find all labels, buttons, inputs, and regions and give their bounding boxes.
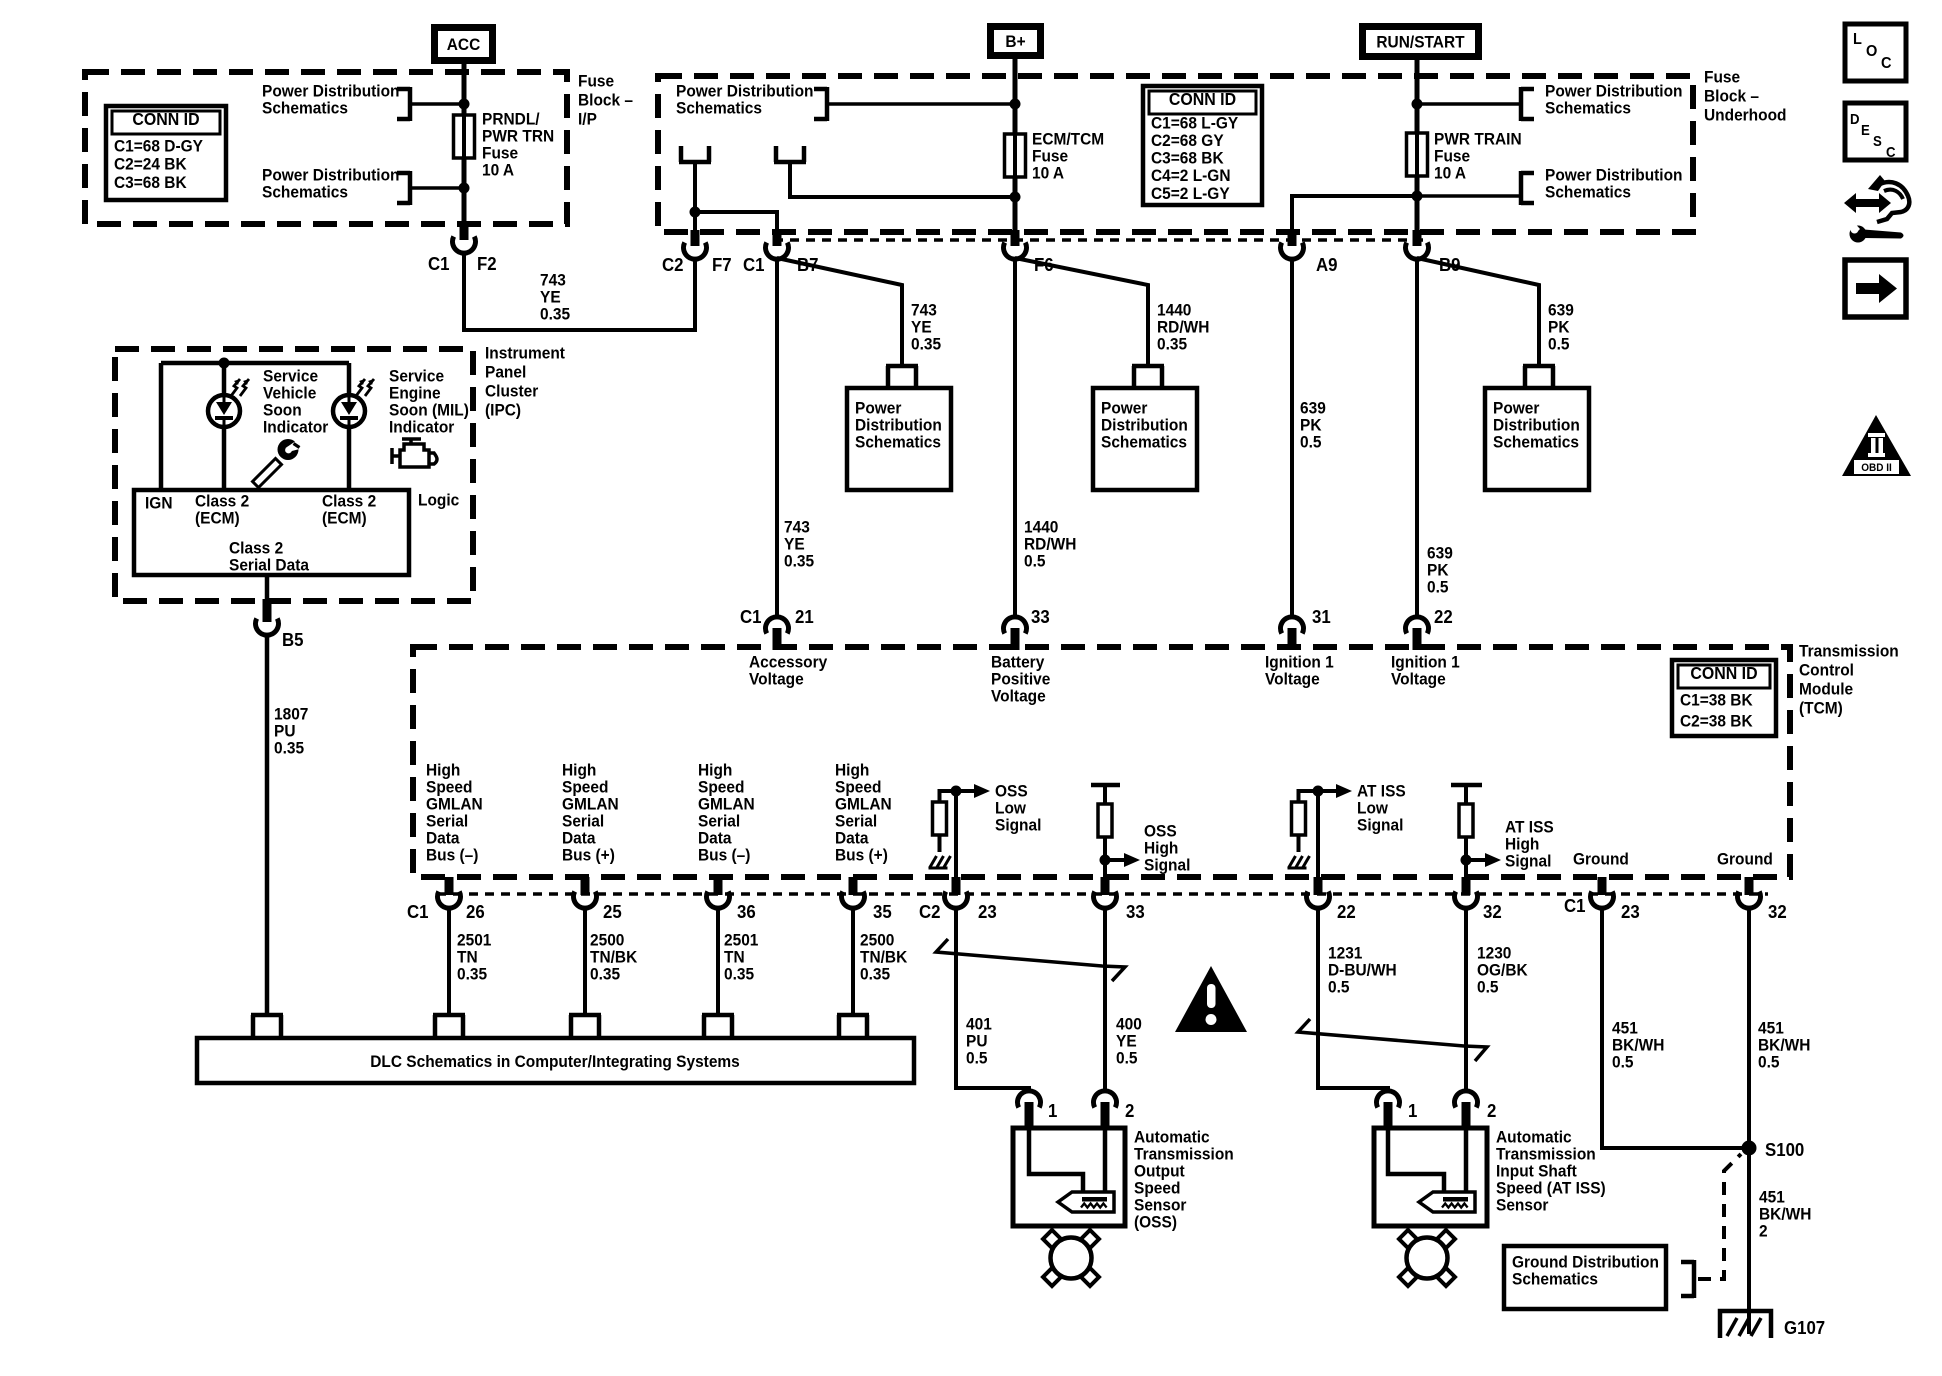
svg-text:C2=68 GY: C2=68 GY xyxy=(1151,131,1224,150)
wire Class 2 serial data xyxy=(265,575,270,601)
resistor (OSS high) xyxy=(1091,783,1120,788)
svg-text:(IPC): (IPC) xyxy=(485,401,521,420)
connector A9 xyxy=(1288,230,1297,246)
svg-text:0.5: 0.5 xyxy=(1477,978,1499,997)
indicator lamp Service Engine Soon xyxy=(333,395,365,427)
label 1440 RD/WH 0.5 (to TCM) xyxy=(1024,518,1058,537)
page link stub (DLC, 1807 PU) xyxy=(251,1013,283,1018)
svg-text:C: C xyxy=(1881,54,1892,72)
svg-text:Indicator: Indicator xyxy=(263,418,329,437)
wire to A9 xyxy=(1292,196,1417,232)
Instrument Panel Cluster dashed box xyxy=(115,349,473,601)
svg-text:C2=38 BK: C2=38 BK xyxy=(1680,712,1753,731)
wire ACC feed xyxy=(462,64,467,224)
signal arrow OSS Low xyxy=(956,789,974,793)
wire 401 PU xyxy=(956,907,1029,1092)
label 401 PU 0.5 xyxy=(966,1015,992,1034)
wire RUN/START feed xyxy=(1415,60,1420,232)
svg-text:Schematics: Schematics xyxy=(262,99,348,118)
svg-text:Signal: Signal xyxy=(1357,816,1403,835)
chassis ground (AT ISS low) xyxy=(1297,835,1301,852)
lamp rays xyxy=(231,379,240,396)
Power Distribution Schematics reference (RUN/START lower) xyxy=(1545,166,1682,185)
svg-text:Instrument: Instrument xyxy=(485,344,565,363)
connector pin 33 (TCM bottom) xyxy=(1101,877,1110,895)
wire label xyxy=(457,931,491,950)
wire to ECM/TCM fuse top xyxy=(827,102,1015,106)
harness dotted line (TCM bottom connectors) xyxy=(437,892,1768,896)
svg-text:0.35: 0.35 xyxy=(1157,335,1187,354)
svg-text:Signal: Signal xyxy=(1144,856,1190,875)
connector C1 B7 xyxy=(773,230,782,246)
junction xyxy=(459,183,470,194)
page link bracket (ground distribution) xyxy=(1692,1260,1697,1298)
page link stub (DLC) xyxy=(837,1013,869,1018)
CONN ID table (TCM) xyxy=(1672,660,1776,736)
label 451 BK/WH 0.5 (left) xyxy=(1612,1019,1638,1038)
svg-text:0.35: 0.35 xyxy=(540,305,570,324)
svg-text:0.35: 0.35 xyxy=(274,739,304,758)
label C1 (TCM top row) xyxy=(740,606,762,627)
label High Speed GMLAN Serial Data Bus xyxy=(426,761,460,780)
svg-text:10 A: 10 A xyxy=(482,161,514,180)
wire to PRNDL fuse lower xyxy=(410,186,464,190)
svg-text:1: 1 xyxy=(1048,1100,1058,1121)
label 639 PK 0.5 (B9 branch) xyxy=(1548,301,1574,320)
svg-text:23: 23 xyxy=(1621,901,1640,922)
label High Speed GMLAN Serial Data Bus xyxy=(698,761,732,780)
svg-text:32: 32 xyxy=(1768,901,1787,922)
svg-text:RUN/START: RUN/START xyxy=(1376,33,1464,52)
svg-text:C2: C2 xyxy=(919,901,941,922)
page link stub ECM branch xyxy=(774,160,806,165)
svg-text:G107: G107 xyxy=(1784,1317,1825,1338)
svg-text:Logic: Logic xyxy=(418,491,459,510)
svg-text:0.5: 0.5 xyxy=(1427,578,1449,597)
Power Distribution Schematics box xyxy=(847,388,951,490)
wire to C1/B7 xyxy=(695,212,777,232)
wire 639 PK (B9) down xyxy=(1415,258,1419,617)
svg-text:C3=68 BK: C3=68 BK xyxy=(114,173,187,192)
svg-text:C4=2 L-GN: C4=2 L-GN xyxy=(1151,167,1231,186)
svg-text:32: 32 xyxy=(1483,901,1502,922)
svg-text:F2: F2 xyxy=(477,253,497,274)
wire B+ feed xyxy=(1013,59,1018,232)
connector F6 xyxy=(1011,230,1020,246)
svg-text:0.5: 0.5 xyxy=(966,1049,988,1068)
label Logic xyxy=(418,491,459,510)
label Ground (C1-23) xyxy=(1573,850,1629,869)
wire GMLAN serial data xyxy=(851,907,855,1015)
power feed RUN/START box xyxy=(1359,23,1482,60)
svg-text:Block –: Block – xyxy=(578,91,633,110)
Fuse Block - I/P dashed box xyxy=(85,72,567,224)
svg-text:C1: C1 xyxy=(428,253,450,274)
CONN ID table (Fuse Block I/P) xyxy=(106,106,226,200)
Power Distribution Schematics box xyxy=(1485,388,1589,490)
AT ISS internal wiring xyxy=(1388,1130,1444,1193)
connector pin 22 (TCM bottom) xyxy=(1314,877,1323,895)
svg-text:Fuse: Fuse xyxy=(1704,68,1740,87)
Fuse Block - I/P label xyxy=(578,72,614,91)
svg-text:S100: S100 xyxy=(1765,1139,1804,1160)
bidirectional message / wrench icon xyxy=(1844,175,1909,243)
svg-text:0.35: 0.35 xyxy=(724,965,754,984)
PWR TRAIN fuse label xyxy=(1434,130,1522,149)
svg-text:D: D xyxy=(1850,110,1860,127)
svg-text:0.5: 0.5 xyxy=(1328,978,1350,997)
svg-text:C1: C1 xyxy=(1564,895,1586,916)
dashed link wire to S100 xyxy=(1698,1154,1741,1279)
wire 1807 PU xyxy=(265,634,270,1015)
connector pin 31 (TCM top) xyxy=(1281,617,1304,634)
svg-text:23: 23 xyxy=(978,901,997,922)
svg-text:2: 2 xyxy=(1759,1222,1768,1241)
svg-text:OBD II: OBD II xyxy=(1861,462,1892,475)
Power Distribution Schematics box xyxy=(1093,388,1197,490)
label High Speed GMLAN Serial Data Bus xyxy=(562,761,596,780)
label C2 (TCM bottom) xyxy=(919,901,941,922)
svg-text:(ECM): (ECM) xyxy=(322,509,367,528)
wire GMLAN serial data xyxy=(583,907,587,1015)
speed sensor pickup symbol (OSS) xyxy=(1058,1192,1114,1212)
forward arrow icon box xyxy=(1845,260,1906,317)
label High Speed GMLAN Serial Data Bus xyxy=(835,761,869,780)
svg-text:0.5: 0.5 xyxy=(1300,433,1322,452)
label OSS High Signal xyxy=(1144,822,1177,841)
connector pin 2 (AT ISS) xyxy=(1455,1091,1478,1108)
label C1 (TCM bottom right) xyxy=(1564,895,1586,916)
svg-text:0.35: 0.35 xyxy=(590,965,620,984)
wire 1440 branch to Power Distribution xyxy=(1015,258,1148,364)
Instrument Panel Cluster label xyxy=(485,344,565,363)
page link stub C2 branch xyxy=(679,160,711,165)
svg-text:(ECM): (ECM) xyxy=(195,509,240,528)
svg-text:22: 22 xyxy=(1337,901,1356,922)
label 1231 D-BU/WH 0.5 xyxy=(1328,944,1362,963)
svg-text:0.5: 0.5 xyxy=(1548,335,1570,354)
chassis ground (OSS low) xyxy=(938,835,942,852)
wire 400 YE xyxy=(1103,907,1107,1092)
svg-text:26: 26 xyxy=(466,901,485,922)
transmission rotor symbol (AT ISS) xyxy=(1399,1230,1417,1248)
wire 639 PK (A9) down xyxy=(1290,258,1294,617)
svg-text:Serial Data: Serial Data xyxy=(229,556,310,575)
svg-text:33: 33 xyxy=(1126,901,1145,922)
wire AT ISS low to pin 22 xyxy=(1316,791,1320,877)
Power Distribution Schematics reference (lower left) xyxy=(262,166,399,185)
page link stub (Power Distribution Schematics box) xyxy=(886,364,918,369)
wire OSS low to pin 23 xyxy=(954,791,958,877)
svg-text:E: E xyxy=(1861,121,1870,138)
svg-text:C1=68 L-GY: C1=68 L-GY xyxy=(1151,114,1238,133)
label 743 YE 0.35 (to TCM) xyxy=(784,518,810,537)
connector pin 1 (OSS) xyxy=(1018,1091,1041,1108)
svg-text:B+: B+ xyxy=(1005,32,1025,51)
svg-text:ACC: ACC xyxy=(447,35,481,54)
label 1807 PU 0.35 xyxy=(274,705,308,724)
svg-text:33: 33 xyxy=(1031,606,1050,627)
AT ISS sensor box xyxy=(1374,1128,1487,1226)
junction xyxy=(459,99,470,110)
wire 451 BK/WH (32) xyxy=(1747,907,1751,1334)
wire 743 YE (to C2) xyxy=(464,252,695,330)
svg-text:C1: C1 xyxy=(740,606,762,627)
signal arrow AT ISS Low xyxy=(1318,789,1336,793)
svg-text:Bus (+): Bus (+) xyxy=(562,846,615,865)
power feed ACC box xyxy=(431,24,496,64)
svg-text:Ground: Ground xyxy=(1717,850,1773,869)
label Ignition 1 Voltage (31) xyxy=(1265,653,1334,672)
ECM/TCM fuse label xyxy=(1032,130,1104,149)
connector pin 26 (TCM bottom) xyxy=(445,877,454,895)
wire GMLAN serial data xyxy=(716,907,720,1015)
resistor (OSS low pull-down) xyxy=(933,802,947,835)
label 639 PK 0.5 (A9) xyxy=(1300,399,1326,418)
svg-text:Voltage: Voltage xyxy=(1265,670,1320,689)
svg-text:C2: C2 xyxy=(662,254,684,275)
resistor (AT ISS low pull-down) xyxy=(1292,802,1306,835)
connector pin 2 (OSS) xyxy=(1094,1091,1117,1108)
svg-text:36: 36 xyxy=(737,901,756,922)
transmission rotor symbol (OSS) xyxy=(1043,1230,1061,1248)
svg-text:Fuse: Fuse xyxy=(578,72,614,91)
OSS internal wiring xyxy=(1029,1130,1083,1193)
svg-text:Panel: Panel xyxy=(485,363,526,382)
wire 743 YE branch to Power Distribution xyxy=(777,258,902,364)
svg-text:Schematics: Schematics xyxy=(1512,1270,1598,1289)
svg-text:0.35: 0.35 xyxy=(457,965,487,984)
label Automatic Transmission Input Shaft Speed Sensor xyxy=(1496,1128,1572,1147)
svg-text:C1=38 BK: C1=38 BK xyxy=(1680,691,1753,710)
wire label xyxy=(724,931,758,950)
wire 1231 D-BU/WH xyxy=(1318,907,1388,1092)
wire 1230 OG/BK xyxy=(1464,907,1468,1092)
CONN ID table (Fuse Block Underhood) xyxy=(1143,86,1262,205)
connector pin 35 (TCM bottom) xyxy=(849,877,858,895)
IPC logic box xyxy=(134,490,409,575)
label Accessory Voltage xyxy=(749,653,827,672)
svg-text:Schematics: Schematics xyxy=(262,183,348,202)
connector pin 1 (AT ISS) xyxy=(1376,1091,1399,1108)
svg-text:0.5: 0.5 xyxy=(1116,1049,1138,1068)
wire GMLAN serial data xyxy=(447,907,451,1015)
svg-text:22: 22 xyxy=(1434,606,1453,627)
svg-text:25: 25 xyxy=(603,901,622,922)
connector pin 33 (TCM top) xyxy=(1004,617,1027,634)
Power Distribution Schematics reference (B+ branch) xyxy=(676,82,813,101)
label Automatic Transmission Output Speed Sensor xyxy=(1134,1128,1210,1147)
svg-text:31: 31 xyxy=(1312,606,1331,627)
label 743 YE 0.35 (branch) xyxy=(911,301,937,320)
svg-text:Indicator: Indicator xyxy=(389,418,455,437)
svg-text:2: 2 xyxy=(1487,1100,1497,1121)
svg-text:CONN ID: CONN ID xyxy=(1169,89,1236,109)
indicator lamp Service Vehicle Soon xyxy=(208,395,240,427)
speed sensor pickup symbol (AT ISS) xyxy=(1419,1192,1475,1212)
svg-text:(OSS): (OSS) xyxy=(1134,1213,1177,1232)
twisted pair marker (AT ISS) xyxy=(1298,1019,1487,1061)
lamp rays xyxy=(356,379,365,396)
svg-text:0.35: 0.35 xyxy=(911,335,941,354)
svg-text:DLC Schematics in Computer/Int: DLC Schematics in Computer/Integrating S… xyxy=(370,1052,740,1071)
connector B5 xyxy=(263,599,272,622)
signal arrow AT ISS High xyxy=(1466,858,1485,862)
svg-text:Voltage: Voltage xyxy=(1391,670,1446,689)
connector pin 23 (TCM bottom) xyxy=(952,877,961,895)
svg-text:Bus (–): Bus (–) xyxy=(426,846,478,865)
svg-text:CONN ID: CONN ID xyxy=(132,109,199,129)
DESC icon box xyxy=(1845,103,1906,160)
svg-text:C5=2 L-GY: C5=2 L-GY xyxy=(1151,184,1230,203)
svg-text:B5: B5 xyxy=(282,629,304,650)
svg-text:Ground: Ground xyxy=(1573,850,1629,869)
svg-text:C: C xyxy=(1886,143,1896,160)
svg-text:Transmission: Transmission xyxy=(1799,642,1899,661)
wire to PRNDL fuse upper xyxy=(410,102,464,106)
wire 451 BK/WH (C1-23) xyxy=(1602,907,1749,1148)
PRNDL/PWR TRN fuse label xyxy=(482,110,540,129)
connector pin 32 (TCM bottom) xyxy=(1462,877,1471,895)
connector pin 32 (TCM bottom) xyxy=(1745,877,1754,895)
svg-text:Bus (+): Bus (+) xyxy=(835,846,888,865)
svg-text:Voltage: Voltage xyxy=(749,670,804,689)
svg-text:Schematics: Schematics xyxy=(1545,183,1631,202)
svg-text:Schematics: Schematics xyxy=(855,433,941,452)
label 1440 RD/WH 0.35 xyxy=(1157,301,1191,320)
svg-text:1: 1 xyxy=(1408,1100,1418,1121)
svg-text:0.35: 0.35 xyxy=(784,552,814,571)
svg-text:Schematics: Schematics xyxy=(1493,433,1579,452)
svg-text:Underhood: Underhood xyxy=(1704,106,1786,125)
svg-text:CONN ID: CONN ID xyxy=(1690,663,1757,683)
label Ground (32) xyxy=(1717,850,1773,869)
svg-text:Module: Module xyxy=(1799,680,1853,699)
svg-text:0.5: 0.5 xyxy=(1758,1053,1780,1072)
connector pin 25 (TCM bottom) xyxy=(581,877,590,895)
wire 743 YE feed down xyxy=(775,258,779,617)
Power Distribution Schematics reference (RUN/START upper) xyxy=(1545,82,1682,101)
connector pin 21 (TCM top) xyxy=(766,617,789,634)
svg-text:O: O xyxy=(1866,42,1877,60)
page link stub (Power Distribution Schematics box) xyxy=(1523,364,1555,369)
page link stub (DLC) xyxy=(433,1013,465,1018)
Transmission Control Module dashed box xyxy=(413,647,1790,877)
svg-text:35: 35 xyxy=(873,901,892,922)
label 743 YE 0.35 xyxy=(540,271,566,290)
fuse PRNDL/PWR TRN 10A xyxy=(454,115,475,158)
svg-text:C3=68 BK: C3=68 BK xyxy=(1151,149,1224,168)
Ground Distribution Schematics box xyxy=(1504,1246,1666,1309)
svg-text:C1: C1 xyxy=(743,254,765,275)
svg-text:Sensor: Sensor xyxy=(1496,1196,1549,1215)
label Service Engine Soon Indicator xyxy=(389,367,444,386)
label Service Vehicle Soon Indicator xyxy=(263,367,318,386)
connector pin 36 (TCM bottom) xyxy=(714,877,723,895)
svg-text:L: L xyxy=(1853,30,1862,48)
twisted pair marker (OSS) xyxy=(936,939,1125,981)
harness dotted line (fuse block connectors) xyxy=(774,238,1423,242)
label 1230 OG/BK 0.5 xyxy=(1477,944,1511,963)
resistor (AT ISS high) xyxy=(1451,783,1482,788)
svg-text:S: S xyxy=(1873,132,1882,149)
Fuse Block - Underhood label xyxy=(1704,68,1740,87)
OBD II triangle icon xyxy=(1842,415,1911,476)
wire C2/F7 stem xyxy=(693,164,697,232)
Power Distribution Schematics reference (upper left) xyxy=(262,82,399,101)
label AT ISS Low Signal xyxy=(1357,782,1406,801)
connector C1 F2 xyxy=(460,222,469,240)
svg-text:0.35: 0.35 xyxy=(860,965,890,984)
svg-text:Voltage: Voltage xyxy=(991,687,1046,706)
svg-text:A9: A9 xyxy=(1316,254,1338,275)
svg-text:C1: C1 xyxy=(407,901,429,922)
label 639 PK 0.5 (to TCM) xyxy=(1427,544,1453,563)
svg-text:I/P: I/P xyxy=(578,110,597,129)
fuse ECM/TCM 10A xyxy=(1005,134,1026,177)
svg-text:Bus (–): Bus (–) xyxy=(698,846,750,865)
svg-text:0.5: 0.5 xyxy=(1612,1053,1634,1072)
label 451 BK/WH 2 xyxy=(1759,1188,1785,1207)
label OSS Low Signal xyxy=(995,782,1028,801)
svg-text:10 A: 10 A xyxy=(1434,164,1466,183)
label C1 (TCM bottom left) xyxy=(407,901,429,922)
label 400 YE 0.5 xyxy=(1116,1015,1142,1034)
svg-text:2: 2 xyxy=(1125,1100,1135,1121)
wire label xyxy=(860,931,894,950)
svg-text:Signal: Signal xyxy=(995,816,1041,835)
label Ignition 1 Voltage (22) xyxy=(1391,653,1460,672)
svg-text:(TCM): (TCM) xyxy=(1799,699,1843,718)
wire label xyxy=(590,931,624,950)
ground G107 xyxy=(1720,1311,1771,1338)
svg-text:Cluster: Cluster xyxy=(485,382,539,401)
svg-text:Schematics: Schematics xyxy=(676,99,762,118)
svg-text:0.5: 0.5 xyxy=(1024,552,1046,571)
splice S100 xyxy=(1742,1141,1757,1156)
svg-text:Schematics: Schematics xyxy=(1101,433,1187,452)
LOC icon box xyxy=(1845,24,1906,81)
connector pin 23 (TCM bottom) xyxy=(1598,877,1607,895)
fuse PWR TRAIN 10A xyxy=(1407,133,1428,176)
wire IGN bus xyxy=(161,361,349,366)
label AT ISS High Signal xyxy=(1505,818,1554,837)
wire 1440 RD/WH down xyxy=(1013,258,1017,617)
OSS sensor box xyxy=(1013,1128,1125,1226)
Fuse Block - Underhood dashed box xyxy=(658,76,1693,232)
wire 639 branch to Power Distribution xyxy=(1417,258,1539,364)
label 451 BK/WH 0.5 (right) xyxy=(1758,1019,1784,1038)
engine icon (MIL) xyxy=(392,439,437,467)
svg-text:Schematics: Schematics xyxy=(1545,99,1631,118)
wrench icon xyxy=(253,438,304,488)
label Battery Positive Voltage xyxy=(991,653,1044,672)
power feed B+ box xyxy=(987,23,1044,59)
connector C2 F7 xyxy=(691,230,700,246)
svg-text:C2=24 BK: C2=24 BK xyxy=(114,155,187,174)
DLC Schematics box xyxy=(197,1038,914,1083)
svg-text:Control: Control xyxy=(1799,661,1854,680)
Transmission Control Module label xyxy=(1799,642,1899,661)
svg-text:10 A: 10 A xyxy=(1032,164,1064,183)
page link stub (Power Distribution Schematics box) xyxy=(1132,364,1164,369)
svg-text:IGN: IGN xyxy=(145,494,172,513)
connector B9 xyxy=(1413,230,1422,246)
svg-text:Block –: Block – xyxy=(1704,87,1759,106)
svg-text:21: 21 xyxy=(795,606,814,627)
warning triangle note xyxy=(1175,966,1247,1032)
wire to B+ below fuse xyxy=(790,164,1015,197)
